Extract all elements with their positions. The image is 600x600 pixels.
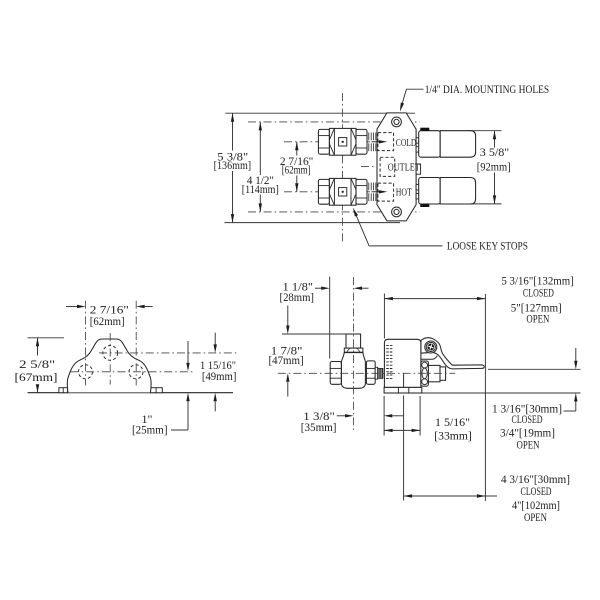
pivot outer ring xyxy=(425,341,437,353)
valve inlet left coupling nut (top view) xyxy=(318,179,329,204)
callout LOOSE KEY STOPS xyxy=(353,208,528,253)
top view: mounting hole centerline upper xyxy=(248,121,420,123)
svg-text:[25mm]: [25mm] xyxy=(132,423,168,437)
bracket top extension line xyxy=(28,337,65,339)
dimension 1 7/8 [47mm] xyxy=(269,306,304,397)
lower holes horizontal centerline xyxy=(71,371,193,373)
dimension 1 5/16 [33mm] xyxy=(384,415,472,443)
dimension 1 [25mm] bracket xyxy=(132,341,190,437)
svg-text:[33mm]: [33mm] xyxy=(434,428,472,442)
callout 1/4" DIA. MOUNTING HOLES xyxy=(400,82,549,111)
valve inlet left coupling nut (top view) xyxy=(318,129,329,154)
top view: hot valve centerline xyxy=(284,191,371,193)
svg-text:OUTLET: OUTLET xyxy=(388,162,420,174)
bracket right foot xyxy=(150,388,162,393)
cartridge connection stubs xyxy=(416,138,419,143)
extension line: pedal tip vertical xyxy=(484,294,486,501)
side view: body left edge serrations xyxy=(386,345,392,378)
top hole horizontal centerline xyxy=(99,352,237,354)
lower 1/4 inch mounting hole xyxy=(392,207,402,217)
svg-text:OPEN: OPEN xyxy=(517,438,540,452)
bracket hole vertical centerline left xyxy=(85,301,87,386)
side view: valve body xyxy=(384,339,421,387)
top view: extension line, overall height bottom xyxy=(225,222,401,224)
cartridge barrel with rounded end xyxy=(440,178,475,205)
pedal level extension line xyxy=(488,368,581,370)
valve hex body (top view) xyxy=(329,178,356,205)
bracket hole top (hidden) xyxy=(103,346,118,361)
bracket hole vertical centerline top hole xyxy=(109,333,111,385)
svg-text:1/4" DIA. MOUNTING HOLES: 1/4" DIA. MOUNTING HOLES xyxy=(425,82,550,96)
dimension 5 3/8 [136mm] line xyxy=(214,113,252,222)
valve outlet right nut (top view) xyxy=(356,179,367,204)
dimension 1 3/16 CLOSED / 3/4 OPEN with leader xyxy=(492,348,578,452)
dimension 3 5/8 [92mm] line xyxy=(477,131,511,204)
extension line: pipe top xyxy=(282,333,346,335)
cartridge cap xyxy=(419,131,441,158)
hot flow arrow xyxy=(372,191,381,193)
svg-text:LOOSE KEY STOPS: LOOSE KEY STOPS xyxy=(447,238,528,252)
loose key square socket xyxy=(339,188,347,196)
side view: inlet horizontal centerline xyxy=(278,372,455,374)
index tab (black) xyxy=(420,204,429,207)
side view: adapter between nut and body xyxy=(375,367,378,379)
bracket hole left (hidden) xyxy=(79,365,93,379)
hot valve assembly xyxy=(318,178,375,205)
valve hex body (top view) xyxy=(329,128,356,155)
cartridge cap xyxy=(419,178,441,205)
svg-text:[49mm]: [49mm] xyxy=(202,369,237,383)
valve outlet right nut (top view) xyxy=(356,129,367,154)
svg-text:[114mm]: [114mm] xyxy=(242,182,279,196)
svg-text:[67mm]: [67mm] xyxy=(15,370,58,384)
side view: threaded nipple (dark) xyxy=(378,368,383,378)
extension line: body right edge lower xyxy=(419,396,421,436)
bracket hole vertical centerline right xyxy=(135,301,137,386)
outlet stub on right of plate xyxy=(416,164,421,174)
svg-text:[47mm]: [47mm] xyxy=(269,353,304,367)
top view: vertical centerline through valves xyxy=(342,93,344,244)
outlet port hidden outline xyxy=(380,157,395,176)
flange level extension line xyxy=(422,392,581,394)
svg-text:[62mm]: [62mm] xyxy=(282,163,311,177)
top view: cold valve centerline xyxy=(284,141,371,143)
svg-text:[92mm]: [92mm] xyxy=(477,160,511,174)
side view: tee vertical centerline xyxy=(353,277,355,431)
index tab (black) xyxy=(420,128,429,131)
top view: outlet centerline xyxy=(361,165,387,167)
side view: pedal lever and pivot bracket xyxy=(421,338,484,369)
loose key square socket xyxy=(339,138,347,146)
upper 1/4 inch mounting hole xyxy=(392,117,402,127)
thread serrations into body xyxy=(368,183,370,191)
bracket profile outline xyxy=(67,339,151,392)
cold self-closing cartridge xyxy=(416,128,476,158)
cartridge barrel with rounded end xyxy=(440,131,475,158)
dimension 1 15/16 [49mm] bracket xyxy=(200,333,236,412)
svg-text:OPEN: OPEN xyxy=(524,510,547,524)
outlet nut cylinder xyxy=(428,365,440,381)
svg-text:[28mm]: [28mm] xyxy=(280,290,315,304)
bracket left foot xyxy=(59,388,68,393)
svg-text:[62mm]: [62mm] xyxy=(90,314,125,328)
bracket base line xyxy=(28,392,234,394)
svg-text:OPEN: OPEN xyxy=(526,312,549,326)
svg-text:3 5/8": 3 5/8" xyxy=(480,145,510,159)
dimension 2 7/16 [62mm] bracket xyxy=(66,303,153,329)
valve body mounting plate with ears xyxy=(377,113,416,221)
outlet cap xyxy=(440,367,446,380)
svg-text:CLOSED: CLOSED xyxy=(523,286,554,300)
side view: inlet vertical pipe stub xyxy=(346,334,361,348)
bracket hole right (hidden) xyxy=(129,365,143,379)
top view: extension line, overall height top xyxy=(225,112,415,114)
extension line: inlet left face xyxy=(329,277,331,359)
side view: mounting flange under body xyxy=(384,387,422,393)
svg-text:1 5/16": 1 5/16" xyxy=(435,415,470,429)
cartridge connection stubs xyxy=(416,185,419,190)
dimension 4 3/16 CLOSED / 4 OPEN line xyxy=(404,472,570,524)
outlet hex facet curves xyxy=(422,362,428,368)
side view: right compression nut xyxy=(366,361,375,384)
side view: left compression nut xyxy=(330,362,341,385)
pivot screw head (black with cross) xyxy=(428,344,435,351)
side view: outlet bonnet plate (hex edge-on) xyxy=(421,361,429,386)
svg-text:CLOSED: CLOSED xyxy=(512,412,543,426)
cold valve assembly xyxy=(318,128,375,155)
dimension 2 7/16 [62mm] line xyxy=(280,142,314,192)
svg-text:[136mm]: [136mm] xyxy=(214,158,252,172)
extension line: body left edge upper xyxy=(383,294,385,339)
dimension 2 5/8 [67mm] bracket xyxy=(15,338,58,393)
cold flow arrow xyxy=(372,141,381,143)
cold port hidden outline xyxy=(378,133,394,151)
dimension 1 3/8 [35mm] xyxy=(301,409,404,434)
hot port hidden outline xyxy=(378,183,394,201)
side view: pipe collar xyxy=(344,348,363,352)
svg-text:HOT: HOT xyxy=(396,187,412,199)
extension lines for 3 5/8 dimension xyxy=(467,130,502,132)
dimension 1 1/8 [28mm] xyxy=(280,280,369,304)
svg-text:COLD: COLD xyxy=(396,137,417,149)
top view: mounting hole centerline lower xyxy=(248,211,420,213)
side view: pivot bracket inner arc / boss xyxy=(421,356,438,360)
extension line: body left edge lower xyxy=(383,396,385,436)
dimension 5 3/16 CLOSED / 5 OPEN line xyxy=(384,274,573,326)
side view: inlet tee center body xyxy=(341,353,365,389)
extension line: stem below flange xyxy=(403,396,405,501)
side view: valve stem hidden line inside body xyxy=(403,373,405,387)
svg-text:CLOSED: CLOSED xyxy=(521,484,552,498)
svg-text:[35mm]: [35mm] xyxy=(301,420,337,434)
dimension 4 1/2 [114mm] line xyxy=(242,122,279,212)
thread serrations into body xyxy=(368,133,370,141)
hot self-closing cartridge xyxy=(416,178,476,208)
